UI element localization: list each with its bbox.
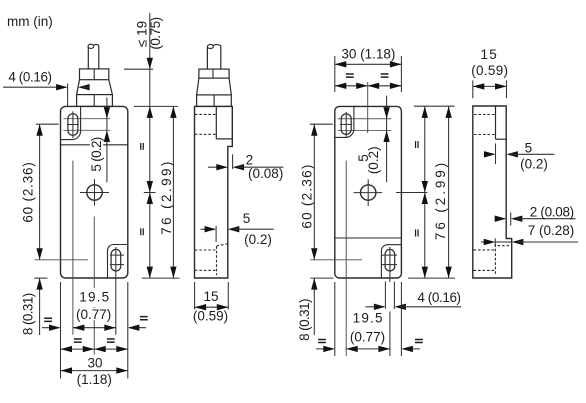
head corner piece bottom-right: [108, 245, 128, 279]
plunger pin: [87, 47, 89, 69]
slot2 tangent line upper: [110, 254, 124, 256]
svg-text:19.5: 19.5: [79, 290, 110, 305]
plunger collar lower side: [197, 95, 232, 107]
extension line slot1 center left: [36, 123, 59, 125]
svg-text:(0.2): (0.2): [244, 232, 272, 247]
dimension 2 (0.08): [498, 218, 505, 220]
equal segment dimension lower right: [424, 193, 426, 279]
body centerline extension down: [93, 217, 95, 355]
center hole circle: [87, 185, 102, 200]
svg-text:76 (2.99): 76 (2.99): [159, 159, 174, 235]
dimension &le;19 (0.75) plunger top: [149, 13, 151, 106]
extension line body left edge down: [334, 282, 336, 356]
svg-text:5 (0.2): 5 (0.2): [89, 137, 104, 171]
equal segment dimension lower: [149, 193, 151, 279]
extension line body right edge down: [400, 282, 402, 356]
plunger collar upper side: [199, 69, 229, 78]
switch body view 1: [61, 106, 128, 278]
svg-text:(0.75): (0.75): [148, 17, 163, 49]
svg-text:8 (0.31): 8 (0.31): [21, 293, 36, 335]
slot2 tangent line lower: [110, 264, 124, 266]
dimension 7 (0.28): [481, 241, 494, 243]
svg-text:(0.2): (0.2): [520, 157, 548, 172]
slot horizontal centerline: [340, 123, 353, 125]
hidden edge dashed bottom lower: [474, 269, 496, 271]
dimension 60 (2.36): [39, 124, 41, 260]
dimension 19.5 (0.77): [80, 288, 106, 307]
plunger taper side: [197, 78, 232, 95]
housing block internal: [495, 106, 497, 139]
plunger taper section: [77, 80, 113, 95]
dimension 5 (0.2) slot travel: [386, 96, 388, 182]
head separation line: [61, 144, 128, 146]
equal mark left of 19.5 row: [44, 318, 52, 321]
slot2 vertical centerline extended to 19.5 dimension: [115, 247, 117, 335]
extension line body left edge down: [60, 282, 62, 379]
dimension 5 (0.2) slot travel: [106, 98, 108, 183]
svg-text:60 (2.36): 60 (2.36): [299, 163, 314, 228]
switch body side view 2: [195, 106, 233, 278]
extension line slot1 center left: [310, 123, 333, 125]
switch body view 3: [335, 106, 402, 278]
center hole circle: [361, 185, 376, 200]
svg-text:15: 15: [480, 47, 498, 62]
extension line slot right edge down: [393, 282, 395, 309]
hidden edge dashed upper: [474, 114, 496, 116]
svg-text:76 (2.99): 76 (2.99): [433, 160, 448, 240]
plunger pin side: [206, 47, 208, 69]
hidden edge dashed lower: [195, 133, 217, 135]
dimension 8 (0.31): [313, 278, 315, 335]
svg-text:(0.59): (0.59): [193, 309, 228, 324]
extension line body bottom left: [34, 277, 47, 279]
slot travel reference line upper: [64, 118, 111, 120]
plunger collar upper: [80, 69, 109, 80]
svg-text:30: 30: [87, 356, 102, 371]
svg-text:15: 15: [203, 289, 218, 304]
plunger pin cap ring side: [207, 44, 213, 48]
hidden edge dashed step to right edge: [217, 244, 228, 246]
extension line body right edge down: [127, 282, 129, 379]
extension line body bottom left: [310, 277, 333, 279]
hidden edge dashed upper: [195, 113, 217, 115]
extension line 30 right: [400, 56, 402, 92]
foot top edge: [495, 241, 512, 243]
dimension 76 (2.99) right: [448, 106, 450, 278]
switch body side view 4: [473, 106, 512, 278]
mounting slot bottom-right: [385, 249, 395, 271]
equal segment dimension upper: [149, 106, 151, 192]
extension line slot2 center left into body: [35, 259, 89, 261]
dimension 5 (0.2) side: [201, 228, 215, 230]
slot travel reference line lower: [338, 130, 392, 132]
slot1 extension line down: [345, 161, 347, 357]
extension line body top right: [414, 105, 455, 107]
equal halves dimension row top: [335, 85, 402, 87]
hidden edge dashed bottom upper: [474, 249, 496, 251]
circle crosshair vertical: [94, 179, 96, 205]
svg-text:19.5: 19.5: [353, 311, 384, 326]
hidden edge dashed vertical: [216, 246, 218, 275]
mounting slot bottom-right: [111, 249, 121, 271]
extension line slot2 center left into body: [310, 259, 362, 261]
extension line body bottom right: [408, 277, 455, 279]
slot travel reference line upper: [338, 118, 392, 120]
mounting slot top-left: [68, 114, 78, 136]
dimension 4 (0.16): [366, 306, 384, 308]
dimension 60 (2.36): [313, 124, 315, 260]
svg-text:7 (0.28): 7 (0.28): [528, 223, 575, 238]
plunger collar lower: [77, 95, 113, 107]
slot travel reference line lower: [64, 129, 111, 131]
hidden edge dashed vertical: [494, 244, 496, 274]
dimension 8 (0.31): [39, 278, 41, 335]
body centerline extension top: [367, 82, 369, 133]
slot2 tangent line lower: [382, 264, 397, 266]
extension line circle center right: [144, 192, 156, 194]
svg-text:(0.2): (0.2): [366, 146, 381, 174]
svg-text:5: 5: [525, 141, 533, 156]
extension line body top right: [134, 105, 178, 107]
circle crosshair horizontal: [80, 192, 109, 194]
equal mark right: [415, 339, 423, 342]
svg-text:8 (0.31): 8 (0.31): [297, 299, 312, 341]
slot2 tangent line upper: [382, 254, 397, 256]
slot vertical centerline: [345, 112, 347, 137]
hidden edge dashed bottom upper: [195, 249, 217, 251]
svg-text:(0.77): (0.77): [350, 329, 385, 344]
dimension 76 (2.99): [172, 106, 174, 278]
circle crosshair horizontal: [354, 192, 383, 194]
hidden edge dashed foot: [498, 245, 512, 247]
equal halves dimension row: [61, 348, 128, 350]
equal segment dimension upper right: [424, 106, 426, 192]
equal mark left: [318, 339, 326, 342]
svg-text:(0.59): (0.59): [471, 63, 508, 78]
slot2 vertical centerline extended: [389, 247, 391, 282]
extension line slot left edge down: [384, 282, 386, 309]
cover joint line: [335, 237, 402, 239]
equal mark right of 19.5 row: [140, 317, 148, 320]
plunger pin cap ring: [88, 44, 94, 48]
mounting slot top-left: [341, 114, 351, 135]
extension line circle center right: [396, 192, 428, 194]
svg-text:(0.77): (0.77): [76, 307, 111, 322]
svg-text:60 (2.36): 60 (2.36): [21, 161, 36, 222]
extension line 30 left: [334, 56, 336, 92]
circle crosshair vertical: [367, 179, 369, 206]
dimension 5 (0.2): [484, 153, 494, 155]
svg-text:(0.08): (0.08): [248, 166, 283, 181]
head corner piece top-left: [335, 106, 354, 137]
dimension 15 (0.59) top: [472, 80, 474, 98]
dimension 2 (0.08) step: [232, 154, 234, 169]
hidden edge dashed bottom lower: [195, 269, 217, 271]
svg-text:4 (0.16): 4 (0.16): [417, 290, 460, 305]
head corner piece top-left: [61, 106, 81, 139]
roller housing block: [215, 106, 217, 138]
svg-text:mm (in): mm (in): [7, 14, 53, 29]
head corner piece bottom-right: [381, 245, 401, 278]
svg-text:30 (1.18): 30 (1.18): [341, 47, 395, 62]
dimension 15 (0.59) below: [194, 282, 196, 310]
slot1 extension line down to 19.5 dimension: [72, 161, 74, 335]
svg-text:(1.18): (1.18): [77, 372, 112, 387]
dimension 19.5 (0.77): [355, 312, 381, 324]
svg-text:5: 5: [243, 211, 251, 226]
svg-text:4 (0.16): 4 (0.16): [8, 70, 51, 85]
extension line body bottom right: [142, 277, 180, 279]
slot vertical centerline: [72, 111, 74, 138]
hidden edge dashed lower: [474, 134, 496, 136]
svg-text:2 (0.08): 2 (0.08): [530, 205, 574, 220]
slot horizontal centerline: [67, 124, 78, 126]
